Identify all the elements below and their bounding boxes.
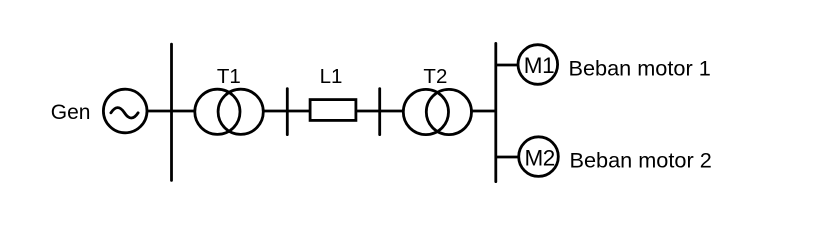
svg-text:Beban motor 1: Beban motor 1 bbox=[569, 55, 711, 80]
line impedance L1 bbox=[310, 65, 356, 120]
svg-text:M2: M2 bbox=[524, 145, 554, 170]
wire T1 to L1 bbox=[262, 110, 310, 113]
svg-text:L1: L1 bbox=[320, 65, 343, 88]
wire generator to busbar 1 bbox=[148, 110, 172, 113]
busbar 1 bbox=[170, 44, 173, 180]
wire busbar 2 to motor M2 bbox=[496, 156, 519, 159]
svg-text:Beban motor 2: Beban motor 2 bbox=[570, 148, 712, 173]
generator G1 bbox=[103, 89, 147, 133]
wire busbar 1 to T1 bbox=[172, 110, 197, 113]
svg-text:T2: T2 bbox=[423, 65, 447, 88]
transformer T1 bbox=[195, 65, 264, 134]
motor M2 bbox=[519, 137, 559, 177]
busbar 2 bbox=[494, 43, 497, 181]
wire busbar 2 to motor M1 bbox=[496, 64, 519, 67]
wire T2 to busbar 2 bbox=[470, 110, 496, 113]
svg-text:M1: M1 bbox=[524, 53, 554, 78]
terminal tick node B bbox=[378, 89, 381, 135]
terminal tick node A bbox=[286, 89, 289, 135]
transformer T2 bbox=[403, 65, 471, 135]
wire L1 to T2 bbox=[356, 110, 404, 113]
motor M1 bbox=[518, 45, 558, 85]
svg-text:T1: T1 bbox=[217, 65, 241, 88]
svg-text:Gen: Gen bbox=[51, 101, 91, 124]
